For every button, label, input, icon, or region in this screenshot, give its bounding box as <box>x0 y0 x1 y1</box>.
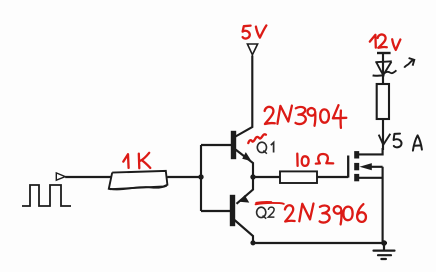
MOSFET body arrowhead <box>360 163 372 170</box>
wire base rail to Q1 base <box>201 144 231 146</box>
node: input to bases junction dot <box>198 174 203 179</box>
input pulse waveform <box>22 185 71 206</box>
wire 12V bar through LED to load resistor <box>382 54 384 84</box>
MOSFET channel bar (drain) <box>354 151 359 158</box>
label Q2 <box>257 207 275 219</box>
MOSFET channel bar (body) <box>354 163 359 170</box>
label 5V (red) <box>243 26 251 39</box>
transistor Q1 base bar <box>231 131 236 159</box>
label 5A (handwritten) <box>394 134 422 151</box>
transistor Q2 emitter arrowhead <box>239 195 249 203</box>
current direction arrowhead 5A <box>379 134 391 145</box>
strike line over Q2 (red) <box>256 202 284 204</box>
MOSFET gate line <box>347 156 349 178</box>
wire input to R 1K <box>65 176 111 178</box>
label 1K (red) <box>123 154 128 168</box>
wire base rail to Q2 base <box>201 210 230 212</box>
leader squiggle to Q1 (red) <box>248 134 266 143</box>
input terminal triangle <box>56 173 65 180</box>
LED D1 triangle <box>375 61 392 74</box>
LED D1 cathode bar <box>373 74 385 76</box>
transistor Q1 collector lead to 5V <box>236 56 253 137</box>
transistor Q2 base bar <box>230 195 235 226</box>
MOSFET body wire <box>372 166 383 168</box>
wire MOSFET source down to ground rail <box>382 167 384 243</box>
wire R 10 to MOSFET gate <box>317 176 348 178</box>
ground symbol <box>374 243 395 259</box>
load resistor body <box>377 84 389 119</box>
label Q1 <box>257 142 273 154</box>
5V supply triangle <box>247 44 257 55</box>
wire emitter node to R 10 <box>253 176 280 178</box>
node: ground junction dot <box>381 240 387 246</box>
wire R 1K to base node <box>167 176 201 178</box>
ground rail wire <box>253 242 387 244</box>
transistor Q1 emitter lead <box>236 150 254 178</box>
label 2N3904 (red) <box>265 107 275 124</box>
node: emitter output junction dot <box>250 174 255 179</box>
transistor Q2 emitter lead <box>237 177 254 204</box>
node: Q2 collector to ground rail dot <box>250 240 255 245</box>
MOSFET source wire <box>359 177 383 179</box>
label 10 ohm (red) <box>296 154 299 166</box>
12V rail bar <box>377 52 391 54</box>
label 2N3906 (red) <box>285 205 295 221</box>
transistor Q2 collector lead <box>235 220 254 243</box>
label 12V (red) <box>370 35 376 48</box>
base rail (bases of Q1 and Q2 tied) <box>200 145 202 211</box>
resistor 1K (hand-drawn) <box>109 171 168 189</box>
wire load resistor to MOSFET drain <box>382 119 384 150</box>
LED D1 emission arrow <box>404 60 413 68</box>
MOSFET channel bar (source) <box>354 174 359 181</box>
MOSFET drain wire <box>359 148 383 154</box>
transistor Q1 emitter arrowhead <box>242 152 251 161</box>
resistor 10 ohm body <box>280 171 317 183</box>
